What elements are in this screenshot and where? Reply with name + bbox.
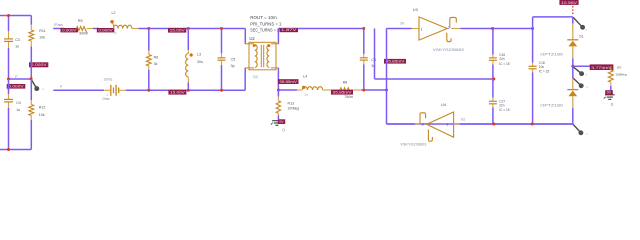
svg-text:R6: R6 bbox=[154, 55, 159, 59]
bias label 95.85mV on R8 bbox=[331, 90, 353, 95]
wire XFMR secondary top pin up bbox=[277, 29, 279, 44]
svg-text:95.85mV: 95.85mV bbox=[386, 60, 405, 64]
svg-text:SEC_TURNS = 1: SEC_TURNS = 1 bbox=[250, 28, 279, 33]
svg-text:10k: 10k bbox=[39, 35, 45, 39]
U4 hook top bbox=[420, 113, 426, 124]
node dot L3 top bbox=[187, 27, 190, 30]
wire U4 pin1 output bbox=[454, 123, 460, 125]
bias label 3.774mV bbox=[590, 64, 614, 70]
svg-text:R12: R12 bbox=[39, 106, 46, 110]
probe V lower on diode wire bbox=[573, 78, 581, 86]
wire jog up to diode column bbox=[532, 17, 534, 29]
ground 0 under R7 bbox=[605, 94, 615, 96]
wire bottom rail bbox=[387, 123, 573, 125]
switch U3 triangle bbox=[419, 17, 447, 40]
svg-text:C3: C3 bbox=[15, 38, 20, 42]
node P mid-left wire bbox=[9, 78, 32, 80]
svg-text:0.000V: 0.000V bbox=[8, 85, 24, 89]
node dot C16 top bbox=[491, 27, 494, 30]
svg-text:95.85mV: 95.85mV bbox=[333, 91, 352, 95]
svg-text:Paa: Paa bbox=[54, 23, 64, 27]
node junction bottom-left bbox=[7, 148, 10, 151]
wire P to source bbox=[53, 89, 104, 91]
svg-text:15.00V: 15.00V bbox=[170, 29, 186, 33]
diode D1 bbox=[572, 17, 574, 24]
svg-text:0V: 0V bbox=[607, 91, 612, 95]
svg-text:L4: L4 bbox=[303, 75, 307, 79]
node junction top-left bbox=[7, 14, 10, 17]
node dot R6 top bbox=[147, 27, 150, 30]
wire top-left rail bbox=[0, 15, 31, 17]
wire C4 branch bbox=[8, 88, 10, 94]
node dot C17 bottom bbox=[492, 123, 495, 126]
node dot right bbox=[30, 77, 33, 80]
svg-text:R7: R7 bbox=[617, 66, 621, 70]
svg-text:1: 1 bbox=[421, 27, 423, 31]
node dot after R8 bbox=[362, 89, 387, 91]
svg-text:1u: 1u bbox=[113, 31, 117, 35]
svg-text:1: 1 bbox=[446, 123, 448, 127]
node dot between D1 D2 bbox=[571, 65, 574, 68]
svg-text:OPTZ180: OPTZ180 bbox=[540, 104, 563, 108]
bias label 15.00V top rail bbox=[168, 28, 186, 33]
wire C3 branch bbox=[8, 16, 10, 32]
svg-text:2: 2 bbox=[422, 122, 424, 126]
svg-text:-: - bbox=[120, 93, 121, 97]
wire U3 output bbox=[451, 28, 460, 30]
svg-text:C4: C4 bbox=[16, 101, 21, 105]
svg-text:R5: R5 bbox=[78, 19, 83, 23]
svg-text:VSKYG230803: VSKYG230803 bbox=[400, 142, 427, 147]
resistor R6 bbox=[148, 29, 150, 51]
probe V at diode top node bbox=[573, 17, 583, 27]
svg-text:On: On bbox=[400, 22, 404, 26]
svg-text:1u: 1u bbox=[16, 108, 20, 112]
svg-text:C5: C5 bbox=[231, 57, 236, 61]
node dot L3 bottom bbox=[187, 89, 190, 92]
node dot C5 bottom bbox=[220, 89, 223, 92]
svg-text:100Meg: 100Meg bbox=[288, 107, 300, 111]
svg-text:IC = 15: IC = 15 bbox=[499, 108, 510, 112]
svg-text:750m: 750m bbox=[344, 95, 353, 99]
wire Paa start bbox=[53, 28, 64, 30]
node dot C18 bottom bbox=[531, 123, 534, 126]
ground 0 under R13 bbox=[272, 120, 282, 122]
bias label 95.85mV at C8 net bbox=[384, 59, 406, 64]
svg-text:22n: 22n bbox=[499, 57, 505, 61]
wire source to XFMR bottom rail bbox=[126, 89, 245, 91]
svg-text:R11: R11 bbox=[39, 29, 45, 33]
wire up-branch x386.5 bbox=[386, 29, 388, 91]
svg-text:PRI_TURNS = 1: PRI_TURNS = 1 bbox=[250, 21, 282, 26]
svg-text:R13: R13 bbox=[288, 102, 295, 106]
svg-text:15.00V: 15.00V bbox=[170, 91, 185, 95]
wire after R5 bbox=[87, 28, 93, 30]
node dot C18 top bbox=[531, 27, 534, 30]
bias label 0V at ground bbox=[278, 119, 285, 124]
svg-text:D1: D1 bbox=[579, 34, 583, 38]
wire corner up to XFMR primary bottom bbox=[244, 68, 246, 90]
svg-text:0V: 0V bbox=[279, 120, 284, 124]
U4 hook bottom bbox=[428, 130, 432, 142]
capacitor C8 bbox=[363, 29, 365, 55]
svg-text:DC: DC bbox=[253, 75, 258, 79]
probe V at D1-D2 node bbox=[573, 67, 582, 74]
node dot left bbox=[7, 78, 10, 81]
voltage source V1 15Vdc battery bbox=[104, 89, 110, 91]
wire rail corner down at x374.5 bbox=[374, 29, 376, 80]
wire bottom-left rail bbox=[0, 149, 31, 151]
probe V at bottom rail corner bbox=[573, 124, 581, 133]
svg-text:15Vdc: 15Vdc bbox=[103, 77, 112, 81]
wire secondary top rail right bbox=[278, 28, 363, 30]
wire R12 branch bbox=[30, 79, 32, 100]
wire to R7 bbox=[573, 65, 611, 67]
svg-text:3p: 3p bbox=[231, 64, 235, 68]
svg-text:U2: U2 bbox=[249, 36, 255, 41]
capacitor C5 bbox=[221, 29, 223, 54]
bias label 95.85mV secondary bottom bbox=[278, 79, 299, 84]
svg-text:100Meg: 100Meg bbox=[615, 73, 626, 77]
svg-text:22n: 22n bbox=[499, 104, 505, 108]
capacitor C18 bbox=[532, 29, 534, 63]
svg-text:VSKYG230803: VSKYG230803 bbox=[433, 47, 465, 52]
svg-text:L2: L2 bbox=[112, 11, 116, 15]
svg-text:0.000V: 0.000V bbox=[62, 28, 77, 32]
bias label 1.87V secondary bbox=[280, 28, 299, 32]
wire XFMR secondary bottom pin down bbox=[277, 68, 279, 90]
svg-text:G2: G2 bbox=[461, 118, 465, 122]
diode D2 bbox=[572, 66, 574, 78]
svg-text:10k: 10k bbox=[39, 113, 45, 117]
wire U4 pin2 branch bbox=[386, 90, 388, 124]
bias label 15.00V bottom rail bbox=[168, 90, 186, 95]
svg-text:1u: 1u bbox=[15, 45, 19, 49]
svg-text:IC = 15: IC = 15 bbox=[539, 69, 550, 73]
resistor R11 bbox=[29, 30, 34, 41]
transformer U2 body bbox=[249, 42, 276, 70]
svg-text:95.85mV: 95.85mV bbox=[280, 80, 298, 84]
svg-text:L3: L3 bbox=[197, 53, 201, 57]
svg-text:U3: U3 bbox=[413, 7, 418, 12]
svg-text:0.000V: 0.000V bbox=[98, 28, 113, 32]
svg-text:3.774mV: 3.774mV bbox=[591, 66, 612, 70]
node dot C16/C17 mid bbox=[492, 78, 495, 81]
svg-text:1.87V: 1.87V bbox=[281, 28, 297, 32]
capacitor C4 bbox=[4, 98, 13, 100]
switch U4 triangle bbox=[427, 112, 454, 137]
bias label 0V at R7 ground bbox=[605, 90, 613, 95]
svg-text:R8: R8 bbox=[343, 80, 348, 84]
U3 hook top bbox=[450, 17, 457, 27]
capacitor C3 bbox=[4, 38, 13, 40]
U3 hook bottom bbox=[447, 33, 451, 42]
probe V marker on node P bbox=[31, 79, 37, 88]
svg-text:IC = 15: IC = 15 bbox=[499, 62, 510, 66]
svg-text:U4: U4 bbox=[441, 102, 447, 107]
transformer phase dots bbox=[253, 44, 256, 47]
wire R11 branch bbox=[30, 16, 32, 25]
bias label 10.58V top right bbox=[559, 0, 578, 5]
bias label 0.000V node P bbox=[7, 84, 26, 89]
capacitor C16 bbox=[492, 29, 494, 55]
svg-text:3k: 3k bbox=[154, 62, 158, 66]
node dot at C8/down wire bbox=[385, 89, 388, 92]
svg-text:30u: 30u bbox=[197, 60, 203, 64]
resistor R12 bbox=[29, 105, 34, 116]
wire secondary bottom to L4 bbox=[278, 89, 297, 91]
resistor R7 bbox=[610, 66, 612, 70]
wire rail corner down to XFMR primary top bbox=[244, 29, 246, 44]
resistor R5 bbox=[76, 27, 86, 33]
wire L2 to transformer rail bbox=[139, 28, 246, 30]
node dot C5 top bbox=[220, 27, 223, 30]
dotted leader bbox=[572, 6, 574, 8]
svg-text:10u: 10u bbox=[539, 65, 545, 69]
capacitor C17 bbox=[492, 79, 494, 98]
bias label 0.000V before R5 bbox=[61, 28, 79, 32]
resistor R13 bbox=[277, 90, 279, 97]
svg-text:OPTZ180: OPTZ180 bbox=[540, 53, 563, 57]
svg-text:0Vac: 0Vac bbox=[103, 97, 110, 101]
wire into U3 pin1 bbox=[387, 28, 412, 30]
svg-text:ROUT = 10m: ROUT = 10m bbox=[250, 15, 277, 20]
svg-text:900m: 900m bbox=[79, 32, 88, 36]
node dot R6 bottom bbox=[147, 89, 150, 92]
svg-text:1u: 1u bbox=[304, 93, 308, 97]
inductor L3 bbox=[187, 29, 189, 51]
node dot secondary bottom bbox=[277, 89, 280, 92]
svg-text:0.000V: 0.000V bbox=[31, 63, 48, 67]
bias label 0.000V before L2 bbox=[97, 28, 115, 32]
resistor R8 bbox=[331, 89, 340, 91]
svg-text:C8: C8 bbox=[371, 58, 376, 62]
wire mid-right y79 bbox=[375, 78, 494, 80]
svg-text:10.58V: 10.58V bbox=[561, 1, 578, 5]
bias label 0.000V on R11 wire bbox=[29, 62, 48, 67]
node dot C8 top bbox=[362, 27, 365, 30]
